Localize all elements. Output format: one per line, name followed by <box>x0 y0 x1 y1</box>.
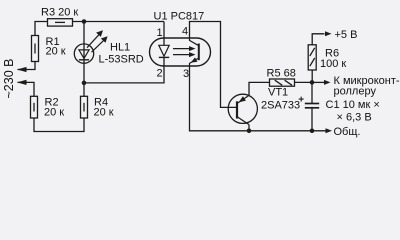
LED HL1 emission arrows <box>87 30 108 52</box>
node junction dot top (R3/LED/pin1) <box>82 19 87 24</box>
svg-text:2: 2 <box>157 67 163 79</box>
wire pin3 down and ground rail <box>190 66 330 131</box>
node junction dot VT1 collector/rail <box>247 129 252 134</box>
svg-text:+5 В: +5 В <box>335 29 358 41</box>
resistor R6 <box>308 45 316 70</box>
svg-text:20 к: 20 к <box>46 46 66 58</box>
wire junction arrow to microcontroller <box>312 81 324 83</box>
capacitor C1 <box>299 97 320 108</box>
transistor VT1 <box>228 94 257 124</box>
AC input arrow lower <box>18 81 28 83</box>
wire LED branch vertical <box>83 22 85 83</box>
wire R6 top to +5V arrow <box>312 34 324 45</box>
LED HL1 <box>74 44 93 63</box>
wire pin1 drop <box>163 22 165 39</box>
U1 phototransistor <box>190 38 199 66</box>
svg-text:2SA733: 2SA733 <box>261 100 300 112</box>
wire AC arrow to R2 top <box>20 82 35 96</box>
svg-text:1: 1 <box>157 27 163 39</box>
svg-text:VT1: VT1 <box>268 86 288 98</box>
svg-text:Общ.: Общ. <box>334 126 361 138</box>
wire C1 top lead <box>311 82 313 103</box>
wire top rail left (R3 to pin1) <box>73 21 165 23</box>
svg-text:R5 68: R5 68 <box>267 67 296 79</box>
resistor R1 <box>32 36 39 62</box>
wire R5 right lead <box>295 81 313 83</box>
svg-text:HL1: HL1 <box>110 42 130 54</box>
wire R6 bottom lead <box>311 70 313 82</box>
U1 emitter arrowhead <box>191 57 198 62</box>
resistor R3 <box>48 19 73 26</box>
wire VT1 emitter to R5 <box>249 82 270 95</box>
svg-text:роллеру: роллеру <box>334 86 377 98</box>
wire R1 bottom to AC arrow <box>20 62 36 70</box>
wire top rail right (pin4 to VT1 base) <box>190 22 238 108</box>
wire R4 top lead <box>83 83 85 96</box>
svg-text:3: 3 <box>183 68 189 80</box>
node junction dot R5/R6/C1 <box>310 80 315 85</box>
wire VT1 collector to rail <box>248 125 250 131</box>
svg-text:L-53SRD: L-53SRD <box>99 53 144 65</box>
node junction dot LED cathode/R4/pin2 <box>82 81 87 86</box>
wire pin2 to junction <box>84 66 164 83</box>
node junction dot C1/rail <box>310 129 315 134</box>
resistor R4 <box>81 96 88 118</box>
svg-text:× 6,3 В: × 6,3 В <box>337 111 372 123</box>
svg-text:U1 PC817: U1 PC817 <box>154 11 205 23</box>
VT1 emitter arrowhead (PNP) <box>239 96 246 102</box>
resistor R2 <box>31 96 38 118</box>
svg-text:20 к: 20 к <box>94 107 114 119</box>
U1 light arrows <box>173 46 196 57</box>
svg-text:4: 4 <box>182 26 188 38</box>
wire R2-R4 bottom U <box>34 118 84 132</box>
wire R3 left lead down to R1 <box>35 22 48 36</box>
arrow to microcontroller <box>324 80 331 85</box>
AC input arrow upper <box>18 69 28 71</box>
wire C1 bottom lead <box>311 108 313 131</box>
svg-text:20 к: 20 к <box>44 107 64 119</box>
svg-text:C1 10 мк ×: C1 10 мк × <box>326 99 380 111</box>
arrow common (ground) <box>326 128 333 133</box>
U1 internal LED <box>159 38 169 66</box>
+5V arrow <box>325 31 332 36</box>
svg-text:100 к: 100 к <box>320 58 346 70</box>
resistor R5 <box>270 79 295 86</box>
svg-text:R3 20 к: R3 20 к <box>41 6 78 18</box>
op-amp U1 optocoupler body <box>150 38 211 66</box>
svg-text:~230 В: ~230 В <box>2 59 16 99</box>
